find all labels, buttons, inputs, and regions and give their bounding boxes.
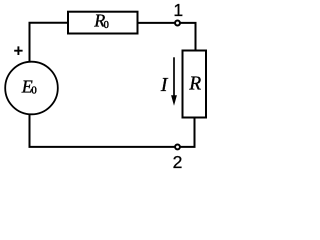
node 2 (175, 144, 180, 149)
svg-text:2: 2 (173, 152, 183, 172)
resistor R (183, 51, 207, 118)
plus polarity mark (14, 46, 22, 55)
current arrow I (173, 57, 175, 98)
node 1 (175, 21, 180, 26)
svg-text:1: 1 (173, 0, 183, 20)
svg-text:0: 0 (31, 85, 36, 97)
svg-text:I: I (160, 74, 169, 96)
wire: R0 to top-right corner down to R (138, 23, 196, 51)
voltage source E0 (5, 62, 58, 115)
resistor R0 (68, 12, 138, 34)
wire: source top up and right to R0 (30, 23, 69, 63)
wire: R bottom down, left along bottom, and up to source (30, 114, 195, 147)
svg-text:0: 0 (104, 20, 109, 31)
svg-text:R: R (188, 74, 201, 95)
